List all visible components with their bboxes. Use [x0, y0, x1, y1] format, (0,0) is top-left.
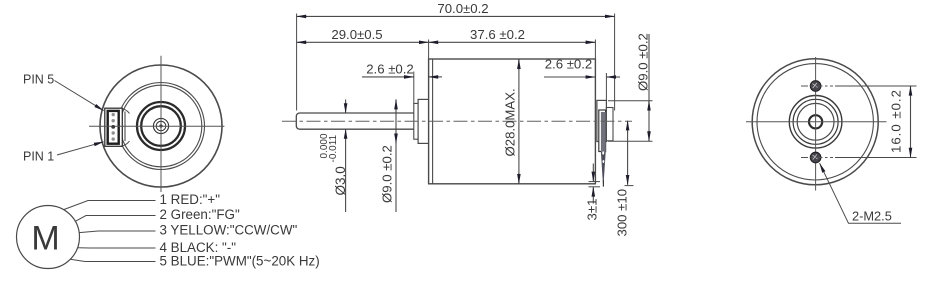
- rotor ring outer circle: [137, 102, 185, 150]
- bare wire tip: [602, 180, 604, 187]
- wire 3 leader line: [79, 231, 155, 233]
- dim 3±1 lower tick: [589, 186, 601, 188]
- bottom screw hole centerline dash: [801, 157, 833, 159]
- dim line 16.0: [910, 86, 912, 158]
- dim 70.0 left extension line: [296, 14, 298, 111]
- top screw hole centerline dash: [801, 85, 833, 87]
- dim 2.6 rear left tail: [544, 76, 595, 78]
- wire 2 leader line: [75, 216, 155, 222]
- connector mount bottom arc: [122, 141, 130, 146]
- dim line 37.6: [429, 41, 596, 43]
- motor body: [429, 59, 596, 184]
- svg-text:2.6 ±0.2: 2.6 ±0.2: [366, 62, 414, 77]
- dim Ø9.0 rear down arrow: [648, 131, 650, 141]
- connector pin 4 dot: [112, 119, 115, 122]
- front boss chamfer face: [414, 103, 418, 139]
- connector inner body rectangle: [108, 111, 119, 144]
- svg-text:Ø3.0: Ø3.0: [333, 166, 348, 195]
- rear shaft-end circle: [809, 115, 822, 128]
- dim line 70.0: [297, 15, 615, 17]
- svg-text:37.6 ±0.2: 37.6 ±0.2: [470, 27, 525, 42]
- svg-text:70.0±0.2: 70.0±0.2: [437, 1, 488, 16]
- dim Ø9.0 front up arrow: [395, 100, 397, 110]
- svg-text:Ø9.0 ±0.2: Ø9.0 ±0.2: [635, 33, 650, 91]
- hub circle outer: [153, 118, 168, 133]
- front view face circle (inner of double): [120, 85, 202, 167]
- svg-text:Ø28.0MAX.: Ø28.0MAX.: [503, 88, 518, 156]
- wire bundle: [601, 112, 606, 152]
- connector mount top arc: [122, 108, 130, 113]
- svg-text:3 YELLOW:"CCW/CW": 3 YELLOW:"CCW/CW": [160, 222, 298, 237]
- dim Ø28.0 up arrow: [518, 59, 520, 70]
- dim Ø9.0 front line: [395, 99, 397, 212]
- dim 70.0 right extension line: [614, 14, 616, 111]
- front view horizontal centerline: [89, 125, 224, 127]
- svg-text:PIN 1: PIN 1: [23, 150, 54, 164]
- side view centerline: [282, 120, 632, 122]
- rear view vertical centerline: [815, 57, 817, 191]
- svg-text:PIN 5: PIN 5: [23, 73, 54, 87]
- rear view inner rim circle: [757, 64, 873, 180]
- rear view horizontal centerline: [746, 121, 887, 123]
- PIN 1 leader line: [57, 142, 104, 155]
- motor symbol circle M: [17, 206, 80, 269]
- front view outer housing circle: [100, 65, 222, 187]
- wire 1 leader line: [64, 201, 156, 210]
- front view vertical centerline: [160, 56, 162, 192]
- wire 4 leader line: [78, 247, 156, 249]
- svg-text:2-M2.5: 2-M2.5: [852, 209, 892, 224]
- svg-text:2 Green:"FG": 2 Green:"FG": [160, 207, 240, 222]
- svg-text:Ø9.0 ±0.2: Ø9.0 ±0.2: [379, 145, 394, 203]
- top screw hole M2.5: [810, 81, 821, 92]
- top screw hole hatch: [813, 83, 818, 88]
- dim Ø28.0 down arrow: [518, 173, 520, 184]
- connector pin 1 dot: [112, 137, 115, 140]
- wire bundle taper: [601, 152, 606, 184]
- wire 5 leader line: [70, 259, 155, 261]
- svg-text:-0.011: -0.011: [328, 134, 339, 162]
- dim 16.0 bottom extension line: [835, 157, 917, 159]
- dim 3±1 upper segment: [592, 164, 594, 182]
- dim Ø3.0 lower segment: [345, 129, 347, 212]
- hub circle inner: [156, 121, 166, 131]
- wire bundle highlight dot 1: [602, 151, 604, 154]
- dim line 300±10: [627, 121, 629, 185]
- rotor ring inner circle: [141, 106, 181, 146]
- dim Ø28.0 line: [518, 59, 520, 184]
- dim Ø9.0 rear top extension: [608, 100, 653, 102]
- dim Ø9.0 rear line: [648, 34, 650, 141]
- dim 2.6 rear extension line: [605, 73, 607, 100]
- dim 37.6 right extension line: [594, 40, 596, 60]
- dim 16.0 top extension line: [835, 85, 917, 87]
- dim 3±1 lower segment: [592, 187, 594, 204]
- front plate line: [432, 59, 434, 184]
- dim Ø9.0 rear bottom extension: [608, 140, 653, 142]
- front view face circle (outer of double): [118, 83, 205, 170]
- bottom screw hole hatch: [813, 155, 818, 160]
- dim 2.6 front left tail: [362, 76, 414, 78]
- svg-text:5 BLUE:"PWM"(5~20K Hz): 5 BLUE:"PWM"(5~20K Hz): [160, 253, 320, 268]
- connector outer shell rectangle: [105, 108, 123, 146]
- dim 3±1 upper tick: [589, 181, 601, 183]
- connector pin 2 dot: [112, 131, 115, 134]
- dim 300±10 bottom extension: [625, 185, 634, 187]
- rear hub circle 2: [793, 99, 838, 144]
- dim Ø9.0 front down arrow: [395, 133, 397, 143]
- svg-text:2.6 ±0.2: 2.6 ±0.2: [545, 57, 593, 72]
- connector pin 5 dot: [112, 113, 115, 116]
- dim Ø9.0 rear up arrow: [648, 101, 650, 111]
- connector pin 3 dot: [111, 125, 115, 129]
- rear view outer circle: [752, 59, 878, 185]
- svg-text:29.0±0.5: 29.0±0.5: [331, 27, 382, 42]
- shaft: [296, 113, 414, 129]
- 2-M2.5 underline: [848, 222, 901, 224]
- svg-text:16.0 ±0.2: 16.0 ±0.2: [889, 89, 904, 153]
- connector mount edge line: [124, 112, 126, 142]
- front boss: [418, 99, 429, 143]
- dim line 29.0: [297, 41, 429, 43]
- bottom screw hole M2.5: [810, 152, 821, 163]
- dim 2.6 front right tail: [429, 76, 442, 78]
- dim 29/37.6 shared extension above body: [428, 40, 430, 60]
- 2-M2.5 leader line: [820, 163, 849, 223]
- dim 2.6 rear right tail: [606, 76, 620, 78]
- rear boss: [597, 100, 607, 141]
- svg-text:1 RED:"+": 1 RED:"+": [160, 192, 221, 207]
- rear hub circle 1: [789, 96, 842, 149]
- shaft center dot: [159, 124, 162, 127]
- rear grommet: [599, 110, 606, 152]
- dim 2.6 front extension line: [413, 72, 415, 104]
- PIN 5 leader line: [55, 81, 104, 111]
- dim Ø3.0 upper segment: [345, 100, 347, 114]
- wire bundle highlight dot 2: [603, 160, 605, 163]
- svg-text:300 ±10: 300 ±10: [615, 189, 630, 237]
- rear strain relief block: [606, 108, 613, 141]
- rear hub circle 3: [797, 103, 834, 140]
- svg-text:3±1: 3±1: [584, 199, 599, 221]
- svg-text:M: M: [31, 219, 59, 257]
